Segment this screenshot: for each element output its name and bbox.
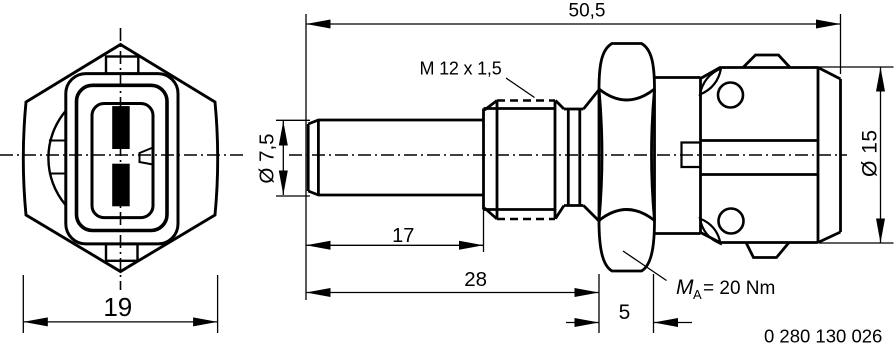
wire thread chamfer diagonals — [485, 101, 565, 220]
node bottom trapezoid tab — [746, 243, 789, 258]
svg-text:Ø 7,5: Ø 7,5 — [256, 133, 279, 183]
node centerline vertical left view — [120, 28, 122, 290]
node circle top — [718, 83, 743, 108]
dimension 5 tails — [566, 322, 692, 324]
node keying notch — [140, 148, 154, 165]
dimension 50,5 line — [306, 23, 841, 25]
dimension 28 line — [306, 292, 599, 294]
node washer groove section — [564, 109, 584, 206]
node neck between nut and body — [655, 78, 701, 234]
wire body circle arc behind connector — [48, 111, 65, 205]
node moulding leaf top — [700, 69, 721, 95]
svg-text:M: M — [676, 276, 694, 299]
leader MA torque — [623, 251, 667, 281]
wire thread crest dashed lines — [497, 101, 555, 220]
svg-text:28: 28 — [464, 268, 487, 291]
dimension diameter 7,5 line — [282, 121, 284, 195]
wire chord line upper — [49, 140, 66, 142]
wire nut chamfer arc bottom — [599, 210, 655, 221]
svg-text:= 20 Nm: = 20 Nm — [703, 278, 775, 299]
node bottom tab — [106, 244, 138, 261]
node circle bottom — [719, 209, 744, 234]
dimension diameter 15 line — [880, 67, 882, 243]
wire nut chamfer arc top — [599, 89, 655, 100]
node connector body block — [701, 68, 819, 243]
dimension 19 line — [23, 321, 217, 323]
wire ext lines diameter 7,5 — [276, 120, 310, 196]
node thread M12 body — [484, 101, 556, 220]
node probe tip — [308, 120, 483, 195]
connector outer shell — [66, 74, 178, 244]
wire extension line left of part — [305, 14, 307, 300]
wire ext lines diameter 15 — [812, 67, 894, 243]
wire body slot lines — [701, 141, 819, 175]
node centerline horizontal side view — [289, 154, 847, 156]
pin 1 blade terminal — [112, 106, 130, 149]
leader M12 — [506, 78, 535, 98]
svg-text:Ø 15: Ø 15 — [859, 129, 882, 177]
svg-text:19: 19 — [103, 292, 132, 322]
wire extension line right end 50,5 — [840, 14, 842, 74]
node end cap — [818, 68, 841, 243]
node side square tab — [682, 143, 701, 168]
node top trapezoid tab — [743, 55, 790, 68]
pin 2 blade terminal — [112, 164, 130, 207]
svg-text:50,5: 50,5 — [569, 1, 606, 22]
wire cone to nut — [584, 89, 601, 223]
wire ext line 5 right — [653, 274, 655, 333]
svg-text:0 280 130 026: 0 280 130 026 — [764, 326, 882, 347]
svg-text:M 12 x 1,5: M 12 x 1,5 — [419, 59, 501, 79]
wire chord line lower — [49, 173, 66, 175]
node top locking tab — [106, 57, 138, 74]
node centerline horizontal left view — [0, 154, 247, 156]
wire nut mid face curves — [599, 89, 655, 221]
dimension 19 ext lines — [23, 275, 217, 333]
svg-text:17: 17 — [392, 225, 414, 247]
connector middle shell — [77, 85, 168, 230]
wire ext line 28 and 5 left — [598, 274, 600, 333]
dimension 17 line — [306, 244, 484, 246]
connector inner slot — [92, 104, 153, 218]
svg-text:A: A — [693, 287, 702, 302]
node moulding leaf bottom — [700, 219, 721, 244]
hexagon housing outline — [23, 45, 217, 272]
arrowheads — [306, 20, 331, 29]
nut hexagon outline — [599, 44, 655, 272]
svg-text:5: 5 — [619, 301, 631, 324]
wire ext line 17 — [483, 198, 485, 252]
